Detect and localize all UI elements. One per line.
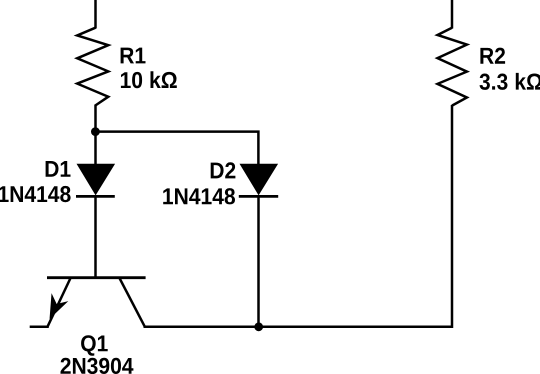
label D2: [211, 162, 236, 178]
value 10 kOhm: [121, 71, 177, 88]
value 2N3904: [61, 358, 134, 374]
wire: R1 bottom to node A: [94, 105, 97, 134]
wire: D1 cathode to Q1 base: [94, 196, 97, 277]
wire: D2 cathode to bottom rail: [257, 196, 260, 327]
diode D1: [76, 164, 115, 196]
resistor R1: [77, 28, 108, 106]
Q1 emitter arrowhead: [51, 296, 66, 317]
value 1N4148 of D2: [163, 188, 235, 204]
label D1: [46, 161, 71, 177]
label R2: [480, 48, 505, 64]
node A junction dot: [91, 127, 100, 136]
diode D2: [239, 164, 278, 196]
wire: node A down to D1 anode: [94, 132, 97, 166]
Q1 emitter diagonal: [48, 279, 71, 327]
Q1 collector diagonal: [120, 279, 145, 327]
wire: bottom rail from Q1 collector to R2: [144, 326, 453, 329]
Q1 base bar: [47, 276, 146, 279]
wire: node A across to D2 anode: [95, 132, 258, 166]
wire: emitter stub: [30, 326, 49, 329]
resistor R2: [438, 28, 467, 106]
wire: R2 bottom to bottom rail: [451, 105, 454, 328]
transistor Q1: [47, 278, 146, 327]
label R1: [121, 48, 146, 64]
junction: bottom node dot: [254, 322, 263, 331]
value 3.3 kOhm: [480, 73, 540, 90]
value 1N4148 of D1: [0, 186, 71, 202]
wire: top lead into R2: [451, 0, 454, 29]
label Q1: [81, 335, 108, 356]
wire: top lead into R1: [94, 0, 97, 29]
